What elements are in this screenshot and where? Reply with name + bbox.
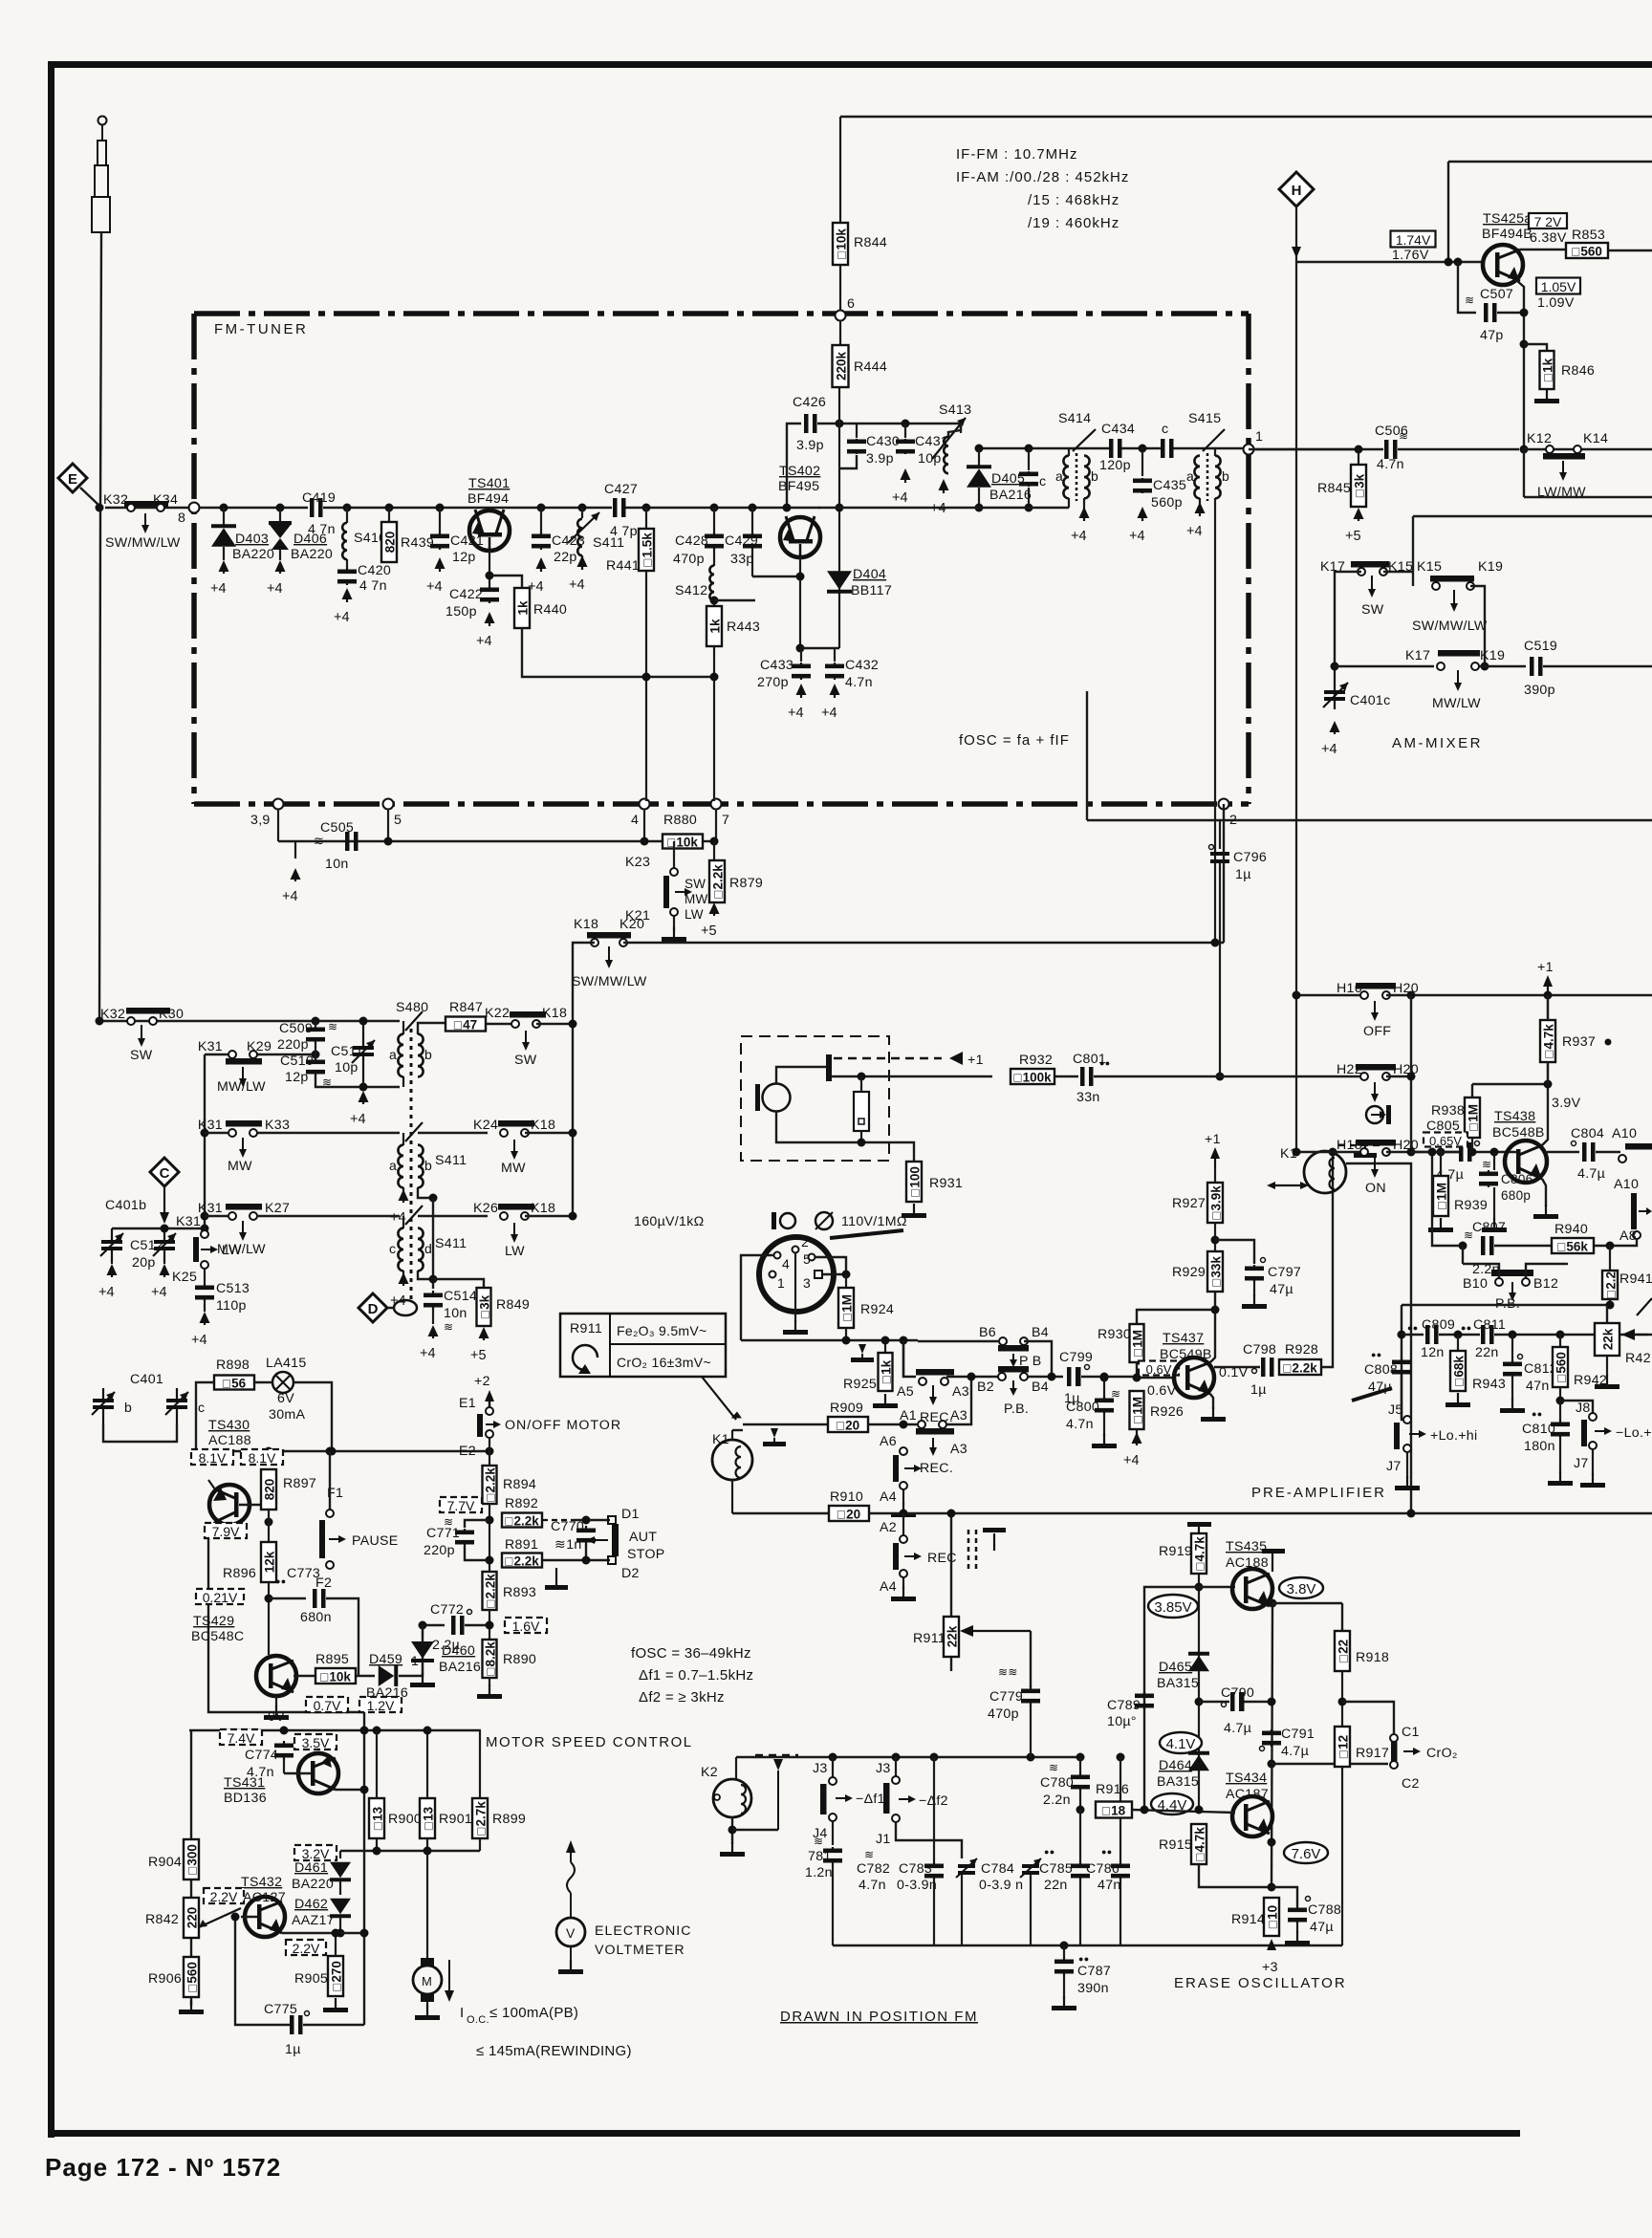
svg-text:H16: H16 [1337,981,1362,996]
svg-text:R937: R937 [1562,1034,1596,1050]
svg-text:AAZ17: AAZ17 [292,1913,335,1928]
capacitor C426 plates [804,414,817,433]
junction R943 top [1454,1331,1463,1339]
svg-text:10µ°: 10µ° [1107,1714,1137,1729]
junction C421 [436,504,445,512]
supply +4 S414b [1071,507,1090,544]
resistor R880 [663,835,703,850]
switch B12 contact [1522,1278,1530,1286]
wire R924 top [845,1274,847,1288]
svg-text:+4: +4 [1186,524,1203,539]
wire R849 branch [433,1279,484,1288]
junction C800b [1100,1374,1109,1382]
svg-text:BC548B: BC548B [1492,1125,1545,1141]
transformer S480 coil b [418,1034,424,1077]
ground motor [415,2006,440,2020]
svg-text:R896: R896 [223,1566,256,1581]
wire K31c stub [205,1215,228,1217]
svg-text:4.7n: 4.7n [1066,1417,1094,1432]
voltage oval 3.8V [1279,1577,1323,1598]
switch J7a contact [1403,1445,1411,1452]
wire K2 top [735,1757,737,1779]
junction feedback/R443 [710,673,719,682]
capacitor C401 b section [92,1388,115,1424]
svg-text:PRE-AMPLIFIER: PRE-AMPLIFIER [1251,1485,1386,1501]
junction S415b/986 [1211,939,1220,947]
switch K17/K15 bar [1351,561,1389,568]
switch K24 arrow [511,1140,518,1160]
main FM input wire [105,507,188,509]
wire lamp right [293,1382,332,1451]
junction R941 bot [1606,1301,1615,1310]
svg-text:C2: C2 [1402,1776,1420,1792]
wire R942-J8 [1560,1401,1593,1413]
capacitor C797 polarity [1261,1258,1266,1263]
svg-text:47n: 47n [1098,1878,1121,1893]
junction C786 [1117,1753,1125,1762]
wire K1b top [731,1430,733,1440]
svg-text:K18: K18 [531,1118,555,1133]
svg-text:820: 820 [383,532,398,554]
junction R897/R896 [265,1518,273,1527]
junction R917 bot [1338,1760,1347,1769]
svg-text:K29: K29 [247,1039,272,1054]
wire R853 out [1608,250,1652,251]
svg-text:D1: D1 [621,1507,640,1522]
junction C509 [312,1017,320,1026]
switch K34 contact [157,504,164,511]
wire R911 bottom stub [950,1657,952,1671]
svg-text:2.2V: 2.2V [210,1889,238,1904]
wire S414 a bottom [1068,498,1070,508]
capacitor C812 [1503,1360,1522,1378]
svg-text:MW/LW: MW/LW [217,1079,266,1095]
switch K32b contact [127,1017,135,1025]
wire S411-2a top [402,1133,404,1145]
node D diamond [359,1293,387,1322]
capacitor C800 [1095,1397,1114,1414]
svg-text:+4: +4 [350,1112,366,1127]
contact D1/D2 bar [612,1524,619,1556]
wire C506 right [1398,448,1519,450]
svg-text:C401: C401 [130,1372,163,1387]
ground K2 [720,1842,745,1857]
svg-text:□ 1M: □ 1M [1131,1330,1145,1357]
svg-text:●●: ●● [1371,1350,1381,1359]
capacitor C805 plates [1459,1142,1472,1162]
svg-text:MW/LW: MW/LW [1432,696,1481,711]
svg-text:7.9V: 7.9V [212,1524,240,1539]
switch H16 arrow [1371,1001,1379,1021]
wire K18b right [525,1132,573,1134]
supply +3 R914 [1267,1936,1276,1950]
svg-text:1µ: 1µ [285,2042,301,2057]
wire C421 lead [439,508,441,532]
capacitor C790 polarity [1222,1703,1227,1707]
switch K18a contact [533,1020,540,1028]
svg-text:□ 3.9k: □ 3.9k [1209,1185,1224,1220]
switch A3 contact [941,1378,948,1385]
wire TS438 collector [1542,995,1548,1145]
FM tuner box right edge [1246,314,1251,804]
wire C790 right [1244,1701,1272,1703]
svg-text:110V/1MΩ: 110V/1MΩ [841,1214,907,1229]
wire R938 feedback [1472,1083,1548,1085]
svg-text:LA415: LA415 [266,1356,307,1371]
voltage box 7.4V [220,1729,262,1746]
wire C804 left [1547,1151,1579,1153]
supply +4 C514 [420,1325,439,1361]
capacitor C519 plates [1530,657,1543,676]
ground J7a [1395,1476,1420,1490]
svg-text:R931: R931 [929,1176,963,1191]
supply +4 S411-3 [390,1272,409,1309]
svg-text:SW: SW [130,1048,153,1063]
svg-text:SW: SW [514,1053,537,1068]
wire C789 left branch [1144,1587,1199,1810]
resistor R916 [1096,1802,1132,1818]
junction K23 tap [670,837,679,846]
junction C507/emitter [1520,309,1529,317]
wire D460 lower [422,1662,424,1675]
wire K31b stub [205,1132,228,1134]
wire TS438 emitter [1542,1179,1546,1206]
resistor R909 [828,1417,868,1433]
wire E2 down [489,1438,490,1466]
svg-text:ON: ON [1365,1181,1386,1196]
switch B6/B4 bar [998,1345,1029,1352]
wire K31d stub [204,1228,206,1230]
voltage box 7.2V [1529,213,1567,229]
switch B6 contact [999,1337,1007,1345]
transistor TS401 [469,510,510,551]
svg-text:K15: K15 [1388,559,1413,575]
svg-text:BA216: BA216 [989,488,1032,503]
junction antenna row3 [96,1017,104,1026]
svg-text:c: c [389,1241,396,1256]
wire rowB [1335,665,1434,667]
transformer S414 coil a [1063,456,1069,499]
wire C784 down [1030,1875,1032,1945]
svg-text:30mA: 30mA [269,1407,305,1423]
svg-text:R441: R441 [606,558,640,574]
voltage box 3.5V [294,1734,337,1750]
capacitor C428 [705,532,724,550]
junction R938 base [1468,1148,1477,1157]
transformer S411-3 coil d [418,1228,424,1271]
node 3,9 [273,799,284,810]
dashed gnd 1402 [851,1340,881,1362]
junction collector/R930 [1211,1306,1220,1315]
wire S415 b bottom [1214,498,1216,943]
svg-text:●●: ●● [1407,1323,1418,1333]
wire C807 col [1432,1152,1463,1246]
wire J4 down [832,1821,834,1845]
svg-text:S413: S413 [939,402,971,418]
svg-text:R917: R917 [1356,1746,1389,1761]
wire J7b down [1592,1449,1594,1475]
svg-text:AM-MIXER: AM-MIXER [1392,735,1483,751]
junction TS402 emitter node [796,573,805,581]
svg-text:220p: 220p [277,1037,309,1053]
junction R-mic top [858,1073,866,1081]
svg-text:A3: A3 [950,1408,967,1423]
svg-text:D465: D465 [1159,1660,1192,1675]
resistor R939 [1433,1176,1449,1216]
wire C771 bottom [465,1546,489,1560]
switch A6 arrow2 [904,1465,922,1472]
switch K27 arrow [239,1221,247,1241]
resistor R929 [1207,1251,1224,1292]
switch K23/K21 bar [663,876,669,908]
svg-text:C780: C780 [1040,1775,1074,1791]
svg-text:R914: R914 [1231,1912,1265,1927]
svg-text:B2: B2 [977,1380,994,1395]
svg-text:K12: K12 [1527,431,1552,446]
wire A5 stub [902,1340,904,1378]
svg-text:1.76V: 1.76V [1392,248,1429,263]
ground C797 [1242,1294,1267,1309]
capacitor C789 [1135,1692,1154,1709]
capacitor C810 [1551,1421,1570,1438]
wire collector out [1214,1366,1260,1368]
svg-text:C810: C810 [1522,1422,1555,1437]
svg-text:120p: 120p [1099,458,1131,473]
svg-text:−Lo.+h: −Lo.+h [1616,1425,1652,1441]
svg-text:D404: D404 [853,567,886,582]
switch K26/K18 bar [498,1204,534,1210]
svg-text:−Δf1: −Δf1 [856,1792,885,1807]
capacitor C420 [337,568,357,585]
wire C782 down [933,1879,935,1945]
junction 1197/1893 [1141,1806,1149,1814]
svg-text:□ 3k: □ 3k [1353,473,1367,497]
svg-text:TS431: TS431 [224,1775,265,1791]
R911 pointer line [702,1377,743,1420]
wire D462 down [339,1917,341,1932]
svg-text:d: d [424,1241,432,1256]
ground R925 [873,1394,898,1408]
wire R928 out [1321,1152,1333,1367]
svg-text:3.2V: 3.2V [302,1846,330,1861]
supply +4 bottom row [282,868,301,904]
lamp LA415 [272,1372,293,1393]
switch H20b contact [1382,1073,1390,1080]
transformer S414 switch arrow [1073,429,1096,451]
svg-text:C788: C788 [1308,1902,1341,1918]
svg-text:BA220: BA220 [292,1877,334,1892]
switch J3b arrow [899,1795,916,1803]
svg-text:V: V [566,1925,576,1941]
svg-text:J1: J1 [876,1832,891,1847]
switch ON/OFF bar [477,1414,483,1437]
junction C429 [749,504,757,512]
svg-text:LW: LW [505,1244,525,1259]
resistor R940 [1552,1238,1594,1254]
capacitor C788 polarity [1306,1897,1311,1901]
wire dashed +1 [834,1057,942,1060]
transformer S411-2 coil a [398,1145,403,1188]
svg-text:C787: C787 [1077,1964,1111,1979]
diode D465 [1188,1652,1209,1672]
svg-text:J7: J7 [1574,1456,1589,1471]
DIN pin 3 square [815,1271,822,1278]
R911 table divider h [610,1343,726,1345]
svg-text:4.7µ: 4.7µ [1577,1166,1605,1182]
svg-text:12k: 12k [263,1551,277,1573]
wire C510 bottom [315,1075,400,1087]
switch K18d contact [591,939,598,946]
svg-text:K34: K34 [153,492,178,508]
supply +4 S413 [930,479,949,516]
junction emitter row [1520,445,1529,454]
junction emitter bottom [796,644,805,653]
wire R939 top [1440,1152,1442,1176]
wire TS434 base [1132,1810,1235,1813]
wire B12 right [1526,1264,1568,1278]
wire to D1 [574,1519,610,1521]
svg-text:R918: R918 [1356,1650,1389,1665]
svg-text:4.7n: 4.7n [1377,457,1404,472]
wire R909 right [868,1423,917,1425]
resistor R853 [1566,243,1608,259]
wire TS437 emitter [1210,1394,1213,1409]
wire C787 down [1063,1975,1065,1998]
wire C805 left ext [1411,1151,1459,1153]
junction D405 bottom [975,504,984,512]
svg-text:●●: ●● [1532,1409,1542,1419]
switch A8 contact [1633,1231,1641,1239]
wire R895-D459 [356,1675,375,1677]
resistor R900 [369,1798,385,1838]
svg-text:+4: +4 [788,706,804,721]
capacitor C505 plates [345,832,359,851]
svg-text:R927: R927 [1172,1196,1206,1211]
svg-text:C791: C791 [1281,1727,1315,1742]
junction 599/1071 [569,1020,577,1029]
capacitor C513 [195,1284,214,1301]
svg-text:+4: +4 [151,1285,167,1300]
wire R909 row [743,1423,828,1425]
contact D1 square [608,1516,616,1524]
wire K15a right [1383,571,1413,573]
switch A5 contact [919,1378,926,1385]
svg-text:H22: H22 [1337,1062,1362,1077]
wire R443 to node7 [713,646,715,801]
wire C772 right [465,1624,489,1626]
svg-text:R904: R904 [148,1855,182,1870]
svg-text:S415: S415 [1188,411,1221,426]
resistor R894 [483,1466,498,1504]
wire R879 lead [713,841,715,860]
svg-text:a: a [1186,468,1194,484]
svg-text:0-3.9n: 0-3.9n [897,1878,937,1893]
wire H to TS425 base [1296,261,1485,263]
ground C788 [1285,1931,1310,1945]
svg-text:R905: R905 [294,1971,328,1987]
voltmeter lead2 [570,1946,572,1962]
resistor R441 [639,529,655,571]
transformer S415 switch arrow [1203,429,1225,451]
capacitor C512a [100,1228,123,1264]
junction C790 left [1195,1698,1204,1706]
svg-text:TS425a: TS425a [1483,211,1532,227]
wire C775 left [235,1917,290,2025]
ground DIN [783,1320,808,1335]
svg-text:K17: K17 [1405,648,1430,663]
wire C782 stub [933,1757,935,1862]
wire C429 lead [751,508,753,532]
svg-text:C420: C420 [358,563,391,578]
switch J3a arrow [836,1794,853,1802]
svg-text:R439: R439 [401,535,434,551]
wire C797 tap [1215,1240,1254,1264]
svg-text:K23: K23 [625,855,650,870]
svg-text:+4: +4 [420,1346,436,1361]
svg-text:□ 10k: □ 10k [835,228,849,259]
tuning gang core [410,1029,413,1300]
ground K21 [662,927,686,942]
wire R899 bottom [479,1838,481,1851]
wire R924 bottom [845,1328,847,1340]
antenna rod lower [92,197,110,232]
wire D406 lower lead [279,550,281,560]
supply +4 C511 [350,1091,369,1127]
wire D459-C772 [399,1625,445,1676]
capacitor C788 [1288,1906,1307,1923]
svg-text:+4: +4 [528,579,544,595]
svg-text:SW/MW/LW: SW/MW/LW [1412,619,1488,634]
resistor mic internal [854,1092,869,1131]
switch A1/A3 bar [916,1428,954,1435]
transistor TS402 [780,516,820,557]
svg-text:≋1n: ≋1n [554,1537,582,1553]
svg-text:6V: 6V [277,1391,294,1406]
svg-text:2: 2 [801,1234,809,1249]
wire TS432 base [241,1916,257,1918]
wire C787 stub [1063,1945,1065,1958]
wire 1476 col [1410,995,1412,1152]
svg-text:1.2V: 1.2V [367,1698,395,1713]
wire C806 top [1493,1152,1495,1170]
svg-text:4.7n: 4.7n [859,1878,886,1893]
wire R930 col [1136,1323,1138,1378]
resistor R943 [1450,1351,1467,1391]
svg-text:D2: D2 [621,1566,640,1581]
svg-text:C435: C435 [1153,478,1186,493]
wire TS401 emitter lead [489,551,490,586]
svg-text:A4: A4 [880,1579,897,1595]
svg-text:BF495: BF495 [778,479,819,494]
svg-text:≋: ≋ [314,834,324,848]
junction J3b [892,1753,901,1762]
wire C788 top [1272,1887,1297,1906]
switch K29 contact [250,1051,257,1058]
svg-text:R906: R906 [148,1971,182,1987]
wire R937 bottom [1547,1062,1549,1084]
svg-text:TS435: TS435 [1226,1539,1267,1554]
capacitor C809 plates [1425,1325,1439,1344]
junction D462/emitter [337,1929,345,1938]
diode D461 [330,1862,351,1882]
svg-text:10n: 10n [444,1306,467,1321]
wire C509-C510 [315,1042,316,1059]
svg-text:□ 2.2k: □ 2.2k [505,1514,539,1529]
svg-text:47n: 47n [1526,1379,1550,1394]
supply +4 C421 [426,557,446,595]
ground C800 [1092,1434,1117,1448]
wire TS402 emitter [799,557,801,648]
